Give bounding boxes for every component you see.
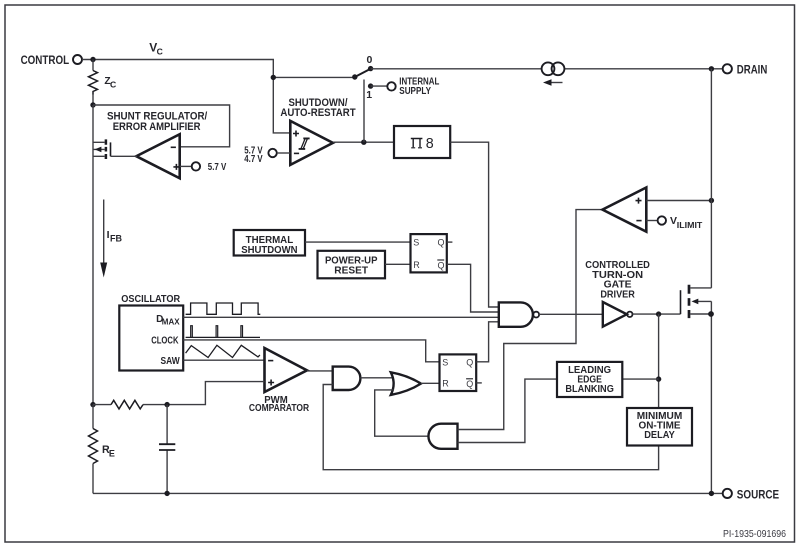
terminal 5.7V/4.7V threshold [244,145,290,165]
svg-text:MAX: MAX [162,316,180,326]
wire LEB right side to tap [622,378,658,380]
wire NAND output to gate driver [539,313,603,315]
block divide-by-8 counter [394,126,450,158]
block POWER-UP RESET [318,251,386,278]
svg-text:S: S [442,357,448,367]
wire OR input 2 from AND2 output [375,390,429,436]
label PWM COMPARATOR [249,395,310,414]
node IFB arrow [100,200,122,278]
svg-text:C: C [157,47,163,57]
svg-text:5.7 V: 5.7 V [208,162,227,173]
latch U5 SR latch 2 [440,354,477,391]
wire Pi8 output to NAND input 1 [450,142,499,307]
op-amp U1 error amplifier triangle [136,134,179,178]
svg-text:R: R [442,379,449,389]
wire drain rail vertical [710,69,712,494]
svg-text:DRAIN: DRAIN [737,63,768,77]
svg-text:OSCILLATOR: OSCILLATOR [121,293,180,305]
wire driver output to MOSFET gate [633,313,681,315]
wire comparator output to Pi8 [333,141,394,143]
svg-text:SOURCE: SOURCE [737,488,779,502]
node drain junction [709,66,714,71]
gate AND1 [333,367,361,390]
wire minus input to VILIMIT terminal [646,220,657,222]
wire CLOCK to latch2 S [183,340,439,362]
hysteresis symbol [299,138,310,149]
transistor Q1 power MOSFET [681,285,712,318]
svg-text:SHUTDOWN: SHUTDOWN [241,244,297,256]
terminal CONTROL [21,53,82,67]
wire switch line down [363,80,365,143]
wire power-up reset to latch1 R [385,263,411,265]
svg-text:S: S [413,238,419,248]
block OSCILLATOR [119,293,183,371]
gate OR1 [391,372,421,395]
svg-text:CLOCK: CLOCK [151,335,179,346]
resistor ZC [92,60,94,71]
terminal 5.7 V reference [192,162,200,170]
wire plus input to drain rail [646,200,711,202]
label ZC [104,76,116,90]
svg-text:COMPARATOR: COMPARATOR [249,403,310,414]
label SHUNT REGULATOR/ERROR AMPLIFIER [107,111,207,133]
wire gate drive from amp output [111,155,138,157]
current source I1 [542,62,565,85]
capacitor C1 [166,405,168,494]
wire AND1 output to OR input 1 [360,377,394,379]
svg-text:PI-1935-091696: PI-1935-091696 [723,528,786,540]
wire latch2 Qbar stub [476,382,482,384]
label RE [102,444,115,458]
svg-text:C: C [110,80,116,90]
wire noninverting input network [167,382,264,405]
op-amp U4 PWM comparator [265,348,308,392]
svg-text:Q: Q [466,357,473,367]
node capacitor bottom [164,491,169,496]
terminal DRAIN [723,63,768,77]
switch SW internal supply [352,54,373,101]
resistor RE [92,405,94,429]
wire bottom rail to SOURCE [93,492,723,494]
svg-text:0: 0 [366,54,372,66]
label VC [149,41,163,57]
wire AND1 lower input from min-on-time delay [323,385,658,470]
transistor sense FET (shunt regulator pass device) [93,139,111,159]
svg-text:RESET: RESET [334,265,368,277]
label SHUTDOWN/AUTO-RESTART [280,97,356,119]
svg-text:DRIVER: DRIVER [600,288,635,300]
buffer U6 gate driver triangle [603,302,627,327]
svg-text:SAW: SAW [161,356,181,367]
wire thermal shutdown to latch1 S [305,241,411,243]
waveform DMAX square wave [186,303,261,314]
wire noninverting input to 5.7V [180,165,192,167]
svg-text:BLANKING: BLANKING [565,383,614,395]
terminal SOURCE [723,488,779,502]
resistor feedback horizontal [93,404,167,406]
wire top rail to drain [371,68,723,70]
svg-text:SUPPLY: SUPPLY [399,86,431,97]
waveform CLOCK pulses [186,326,260,338]
wire DMAX to NAND input 3 [183,316,499,318]
svg-text:R: R [413,260,420,270]
terminal INTERNAL SUPPLY [387,76,439,97]
terminal VILIMIT [658,215,703,230]
latch U3 SR latch 1 [411,234,447,272]
block THERMAL SHUTDOWN [234,230,305,256]
node feedback resistor left [90,402,95,407]
node filter [164,402,169,407]
node driver output [656,311,661,316]
wire switch 1-contact to internal supply terminal [371,85,388,87]
svg-text:ILIMIT: ILIMIT [677,221,703,230]
node source junction [709,491,714,496]
node control/Zc junction [90,57,95,62]
block MINIMUM ON-TIME DELAY [627,408,692,446]
wire latch2 Q to NAND input 4 [476,322,499,362]
node comparator output / switch line [361,140,366,145]
wire plus input drop from VC [273,77,290,132]
svg-text:ERROR AMPLIFIER: ERROR AMPLIFIER [113,121,201,133]
node LEB tap [656,376,661,381]
wire AND2 input 1 from current limit comparator [458,210,603,430]
svg-text:8: 8 [426,136,434,152]
label CONTROLLED TURN-ON GATE DRIVER [585,259,650,300]
gate AND2 (faces left) [428,424,457,449]
svg-text:Q: Q [466,379,473,389]
wire main left rail [92,105,94,405]
wire feedback loop to error amp inverting input [93,105,230,147]
op-amp U2 shutdown comparator [290,121,333,165]
wire OR output to latch2 R [421,382,440,384]
svg-text:FB: FB [110,233,122,243]
wire AND2 input 2 from leading edge blanking [458,379,558,442]
svg-text:4.7 V: 4.7 V [244,154,263,165]
wire SAW to PWM comparator [183,359,264,361]
gate NAND1 [499,302,533,326]
svg-text:CONTROL: CONTROL [21,53,70,67]
wire V_C: CONTROL to switch pivot [82,60,355,78]
block LEADING EDGE BLANKING [557,362,622,397]
op-amp U7 current limit comparator (faces left) [603,188,647,232]
node below ZC [90,102,95,107]
svg-text:E: E [109,448,115,458]
wire PWM output to AND1 [307,370,333,372]
wire latch1 Q stub [447,241,453,243]
node MOSFET source [708,311,714,317]
wire driver node down to blocks [658,314,660,408]
svg-text:AUTO-RESTART: AUTO-RESTART [280,107,356,119]
svg-text:Q: Q [438,260,445,270]
svg-text:1: 1 [366,89,372,101]
wire latch1 Qbar to NAND input 2 [447,264,499,312]
waveform SAW triangle wave [186,345,260,357]
svg-text:DELAY: DELAY [644,429,675,441]
svg-text:Q: Q [438,238,445,248]
